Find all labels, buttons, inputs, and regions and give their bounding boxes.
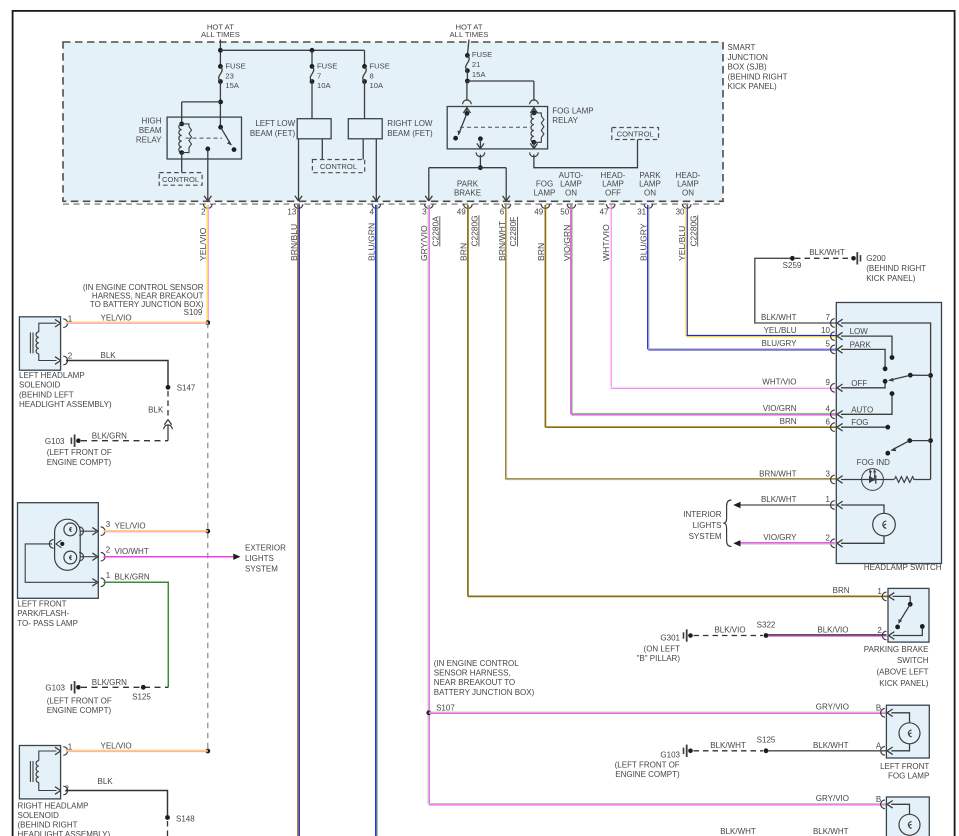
svg-text:ALL TIMES: ALL TIMES bbox=[450, 30, 489, 39]
svg-text:BRN: BRN bbox=[458, 243, 468, 261]
svg-text:JUNCTION: JUNCTION bbox=[728, 53, 769, 62]
svg-text:FUSE: FUSE bbox=[370, 61, 390, 70]
svg-text:LEFT FRONT: LEFT FRONT bbox=[880, 762, 929, 771]
svg-text:TO- PASS LAMP: TO- PASS LAMP bbox=[17, 619, 78, 628]
svg-text:S148: S148 bbox=[176, 815, 195, 824]
svg-text:SOLENOID: SOLENOID bbox=[18, 811, 60, 820]
svg-text:SYSTEM: SYSTEM bbox=[245, 565, 278, 574]
svg-text:NEAR BREAKOUT TO: NEAR BREAKOUT TO bbox=[434, 678, 515, 687]
svg-text:(ABOVE LEFT: (ABOVE LEFT bbox=[876, 668, 928, 677]
svg-text:2: 2 bbox=[826, 533, 831, 542]
svg-text:VIO/GRY: VIO/GRY bbox=[763, 533, 797, 542]
svg-text:BLK: BLK bbox=[98, 777, 114, 786]
svg-text:EXTERIOR: EXTERIOR bbox=[245, 544, 286, 553]
svg-text:ENGINE COMPT): ENGINE COMPT) bbox=[47, 458, 112, 467]
svg-text:"B" PILLAR): "B" PILLAR) bbox=[637, 654, 681, 663]
svg-text:YEL/VIO: YEL/VIO bbox=[101, 313, 132, 322]
svg-text:BLK/WHT: BLK/WHT bbox=[813, 827, 849, 836]
svg-text:(BEHIND RIGHT: (BEHIND RIGHT bbox=[728, 72, 788, 81]
svg-text:VIO/WHT: VIO/WHT bbox=[115, 547, 149, 556]
svg-text:S259: S259 bbox=[783, 261, 802, 270]
svg-text:C2280A: C2280A bbox=[430, 216, 440, 247]
svg-text:8: 8 bbox=[370, 71, 374, 80]
svg-text:(BEHIND LEFT: (BEHIND LEFT bbox=[19, 390, 74, 399]
svg-text:HEADLIGHT ASSEMBLY): HEADLIGHT ASSEMBLY) bbox=[19, 400, 112, 409]
svg-text:BRN/WHT: BRN/WHT bbox=[759, 469, 796, 478]
svg-text:6: 6 bbox=[500, 208, 505, 217]
svg-text:BRN: BRN bbox=[833, 586, 850, 595]
svg-text:(LEFT FRONT OF: (LEFT FRONT OF bbox=[47, 448, 112, 457]
svg-text:BLK/GRN: BLK/GRN bbox=[115, 573, 150, 582]
svg-text:RELAY: RELAY bbox=[136, 135, 162, 144]
svg-text:7: 7 bbox=[317, 71, 321, 80]
svg-text:BLK/WHT: BLK/WHT bbox=[813, 741, 849, 750]
svg-text:15A: 15A bbox=[472, 70, 486, 79]
svg-text:LOW: LOW bbox=[850, 327, 869, 336]
svg-text:GRY/VIO: GRY/VIO bbox=[816, 703, 849, 712]
svg-text:3: 3 bbox=[106, 520, 111, 529]
svg-text:C2280G: C2280G bbox=[688, 215, 698, 246]
svg-text:FOG IND: FOG IND bbox=[857, 458, 891, 467]
svg-text:3: 3 bbox=[826, 470, 831, 479]
svg-text:BRN: BRN bbox=[536, 243, 546, 261]
svg-text:G103: G103 bbox=[660, 750, 680, 759]
svg-text:FOG: FOG bbox=[851, 418, 868, 427]
svg-text:ON: ON bbox=[682, 188, 694, 197]
svg-text:BEAM: BEAM bbox=[139, 126, 162, 135]
svg-text:SWITCH: SWITCH bbox=[897, 656, 929, 665]
svg-text:BRN: BRN bbox=[780, 417, 797, 426]
svg-text:OFF: OFF bbox=[605, 188, 621, 197]
svg-text:BLK/GRN: BLK/GRN bbox=[92, 431, 127, 440]
svg-text:OFF: OFF bbox=[851, 379, 867, 388]
svg-text:HIGH: HIGH bbox=[142, 117, 162, 126]
svg-text:RIGHT LOW: RIGHT LOW bbox=[387, 119, 433, 128]
svg-text:1: 1 bbox=[106, 571, 111, 580]
svg-text:SOLENOID: SOLENOID bbox=[19, 381, 61, 390]
svg-text:(LEFT FRONT OF: (LEFT FRONT OF bbox=[47, 697, 112, 706]
svg-text:BRAKE: BRAKE bbox=[454, 188, 481, 197]
svg-text:BLK/VIO: BLK/VIO bbox=[714, 625, 745, 634]
svg-text:FUSE: FUSE bbox=[225, 61, 245, 70]
svg-text:BOX (SJB): BOX (SJB) bbox=[728, 63, 767, 72]
svg-text:3: 3 bbox=[422, 208, 427, 217]
svg-text:LIGHTS: LIGHTS bbox=[245, 554, 274, 563]
svg-text:30: 30 bbox=[676, 208, 685, 217]
svg-text:(BEHIND RIGHT: (BEHIND RIGHT bbox=[18, 821, 78, 830]
svg-text:BLK/VIO: BLK/VIO bbox=[817, 625, 848, 634]
svg-text:B: B bbox=[876, 795, 881, 804]
svg-text:KICK PANEL): KICK PANEL) bbox=[879, 679, 929, 688]
svg-text:CONTROL: CONTROL bbox=[162, 175, 199, 184]
svg-text:21: 21 bbox=[472, 60, 480, 69]
svg-text:BEAM (FET): BEAM (FET) bbox=[387, 129, 433, 138]
svg-text:4: 4 bbox=[370, 208, 375, 217]
svg-text:KICK PANEL): KICK PANEL) bbox=[728, 82, 778, 91]
svg-text:KICK PANEL): KICK PANEL) bbox=[866, 274, 916, 283]
svg-text:PARK: PARK bbox=[850, 341, 872, 350]
svg-text:YEL/BLU: YEL/BLU bbox=[764, 326, 797, 335]
svg-text:S125: S125 bbox=[757, 736, 776, 745]
svg-text:1: 1 bbox=[877, 587, 882, 596]
svg-text:15A: 15A bbox=[225, 81, 239, 90]
svg-text:ENGINE COMPT): ENGINE COMPT) bbox=[47, 706, 112, 715]
svg-text:2: 2 bbox=[68, 352, 73, 361]
svg-text:CONTROL: CONTROL bbox=[617, 129, 654, 138]
svg-text:ON: ON bbox=[644, 188, 656, 197]
svg-text:LEFT HEADLAMP: LEFT HEADLAMP bbox=[19, 371, 85, 380]
svg-text:10A: 10A bbox=[317, 81, 331, 90]
svg-text:5: 5 bbox=[826, 340, 831, 349]
svg-text:BEAM (FET): BEAM (FET) bbox=[250, 129, 296, 138]
svg-text:RELAY: RELAY bbox=[552, 116, 578, 125]
svg-text:HEADLIGHT ASSEMBLY): HEADLIGHT ASSEMBLY) bbox=[18, 830, 111, 836]
svg-text:C2280F: C2280F bbox=[508, 217, 518, 247]
svg-text:BATTERY JUNCTION BOX): BATTERY JUNCTION BOX) bbox=[434, 688, 535, 697]
svg-text:PARK/FLASH-: PARK/FLASH- bbox=[17, 609, 69, 618]
svg-text:BLK: BLK bbox=[101, 351, 117, 360]
svg-text:10: 10 bbox=[821, 326, 830, 335]
svg-text:S147: S147 bbox=[177, 383, 196, 392]
svg-text:(LEFT FRONT OF: (LEFT FRONT OF bbox=[615, 760, 680, 769]
svg-text:VIO/GRN: VIO/GRN bbox=[763, 404, 797, 413]
svg-text:LEFT FRONT: LEFT FRONT bbox=[17, 600, 66, 609]
svg-text:6: 6 bbox=[826, 417, 831, 426]
svg-text:RIGHT HEADLAMP: RIGHT HEADLAMP bbox=[18, 802, 89, 811]
svg-text:50: 50 bbox=[560, 208, 569, 217]
svg-text:FOG LAMP: FOG LAMP bbox=[552, 107, 593, 116]
svg-text:YEL/VIO: YEL/VIO bbox=[115, 522, 146, 531]
svg-text:BLK/WHT: BLK/WHT bbox=[761, 495, 797, 504]
svg-text:4: 4 bbox=[826, 404, 831, 413]
svg-text:(BEHIND RIGHT: (BEHIND RIGHT bbox=[866, 264, 926, 273]
svg-text:S322: S322 bbox=[757, 620, 776, 629]
svg-text:SMART: SMART bbox=[728, 43, 756, 52]
svg-text:(IN ENGINE CONTROL: (IN ENGINE CONTROL bbox=[434, 659, 519, 668]
svg-text:G200: G200 bbox=[866, 254, 886, 263]
svg-text:FUSE: FUSE bbox=[317, 61, 337, 70]
svg-text:GRY/VIO: GRY/VIO bbox=[816, 794, 849, 803]
svg-text:AUTO: AUTO bbox=[851, 405, 873, 414]
svg-text:BLK/GRN: BLK/GRN bbox=[92, 678, 127, 687]
svg-text:BLK: BLK bbox=[148, 405, 164, 414]
svg-text:YEL/VIO: YEL/VIO bbox=[101, 741, 132, 750]
svg-text:1: 1 bbox=[826, 495, 831, 504]
svg-text:BLK/WHT: BLK/WHT bbox=[720, 827, 756, 836]
svg-text:49: 49 bbox=[534, 208, 543, 217]
svg-text:B: B bbox=[876, 704, 881, 713]
svg-text:BLK/WHT: BLK/WHT bbox=[809, 248, 845, 257]
svg-text:10A: 10A bbox=[370, 81, 384, 90]
svg-text:LIGHTS: LIGHTS bbox=[693, 521, 722, 530]
svg-text:ENGINE COMPT): ENGINE COMPT) bbox=[615, 770, 680, 779]
svg-text:31: 31 bbox=[637, 208, 646, 217]
svg-text:A: A bbox=[876, 742, 882, 751]
svg-text:BLU/GRY: BLU/GRY bbox=[762, 339, 798, 348]
svg-text:S107: S107 bbox=[436, 703, 455, 712]
svg-text:9: 9 bbox=[826, 378, 831, 387]
svg-text:FOG LAMP: FOG LAMP bbox=[888, 772, 929, 781]
svg-text:SYSTEM: SYSTEM bbox=[689, 532, 722, 541]
svg-text:S125: S125 bbox=[132, 692, 151, 701]
svg-text:(ON LEFT: (ON LEFT bbox=[644, 645, 681, 654]
svg-text:2: 2 bbox=[65, 785, 70, 794]
svg-text:SENSOR HARNESS,: SENSOR HARNESS, bbox=[434, 669, 511, 678]
svg-text:7: 7 bbox=[826, 313, 831, 322]
svg-text:BLK/WHT: BLK/WHT bbox=[710, 741, 746, 750]
svg-text:C2280G: C2280G bbox=[470, 215, 480, 246]
svg-text:HEADLAMP SWITCH: HEADLAMP SWITCH bbox=[864, 563, 942, 572]
svg-text:LEFT LOW: LEFT LOW bbox=[255, 119, 295, 128]
svg-text:WHT/VIO: WHT/VIO bbox=[762, 378, 796, 387]
svg-text:2: 2 bbox=[201, 208, 206, 217]
svg-text:PARKING BRAKE: PARKING BRAKE bbox=[864, 645, 929, 654]
svg-text:G103: G103 bbox=[45, 684, 65, 693]
svg-text:S109: S109 bbox=[184, 308, 203, 317]
svg-text:FUSE: FUSE bbox=[472, 50, 492, 59]
svg-text:LAMP: LAMP bbox=[534, 188, 556, 197]
svg-text:G301: G301 bbox=[660, 634, 680, 643]
svg-text:47: 47 bbox=[600, 208, 609, 217]
svg-text:13: 13 bbox=[287, 208, 296, 217]
svg-text:23: 23 bbox=[225, 71, 233, 80]
svg-text:ALL TIMES: ALL TIMES bbox=[201, 30, 240, 39]
svg-text:ON: ON bbox=[565, 188, 577, 197]
svg-text:49: 49 bbox=[457, 208, 466, 217]
svg-text:BLK/WHT: BLK/WHT bbox=[761, 313, 797, 322]
svg-text:INTERIOR: INTERIOR bbox=[683, 510, 721, 519]
svg-text:G103: G103 bbox=[45, 437, 65, 446]
svg-text:CONTROL: CONTROL bbox=[320, 162, 357, 171]
svg-text:2: 2 bbox=[877, 626, 882, 635]
svg-text:2: 2 bbox=[106, 546, 111, 555]
